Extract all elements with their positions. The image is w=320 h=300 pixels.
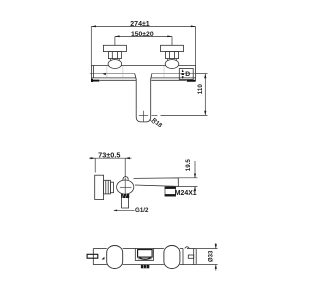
- left leg dome: [108, 60, 122, 69]
- left leg hex nut: [108, 52, 121, 59]
- dimension Ø33: [197, 243, 218, 271]
- svg-text:G1/2: G1/2: [135, 207, 149, 214]
- right end cap box: [179, 69, 193, 80]
- svg-text:73±0.5: 73±0.5: [98, 151, 120, 160]
- hex nut: [104, 180, 111, 194]
- dimension 19.5 arrows (outside): [194, 174, 196, 191]
- svg-text:D: D: [185, 71, 190, 78]
- svg-text:110: 110: [197, 84, 204, 95]
- body seam line: [90, 73, 196, 75]
- flow mark: [103, 73, 106, 75]
- svg-text:19.5: 19.5: [185, 159, 192, 172]
- bottom feet thick lines: [91, 80, 195, 82]
- dimension 274±1 arrows: [91, 25, 195, 27]
- dimension 19.5: [178, 161, 197, 192]
- dimension 110 arrows: [204, 74, 206, 116]
- left leg flange: [103, 45, 126, 51]
- valve crosshair: [120, 178, 132, 197]
- body tube: [92, 66, 196, 81]
- valve body circle: [117, 180, 134, 194]
- spout tube: [136, 79, 151, 122]
- spout arm: [134, 178, 179, 187]
- spout collar tapers: [135, 74, 152, 80]
- dimension 73±0.5 arrows (outside): [91, 157, 130, 159]
- shower outlet tube: [122, 198, 129, 208]
- dimension 274±1 line: [91, 27, 195, 66]
- aerator thread bands: [165, 187, 176, 189]
- spout center crosshair: [139, 111, 158, 122]
- svg-text:M24X1: M24X1: [175, 190, 197, 197]
- spout aerator dark arc: [140, 257, 151, 259]
- G1/2 leader: [114, 209, 135, 211]
- wall flange: [95, 175, 104, 199]
- connector ring: [110, 182, 113, 193]
- body bar: [93, 249, 196, 265]
- right leg dome: [165, 60, 179, 69]
- valve top cap: [123, 177, 128, 180]
- left knob: [107, 246, 123, 269]
- left end cap nub: [91, 79, 93, 82]
- shower outlet thread band: [121, 194, 129, 198]
- dimension 110 line: [161, 74, 208, 116]
- dimension Ø33 arrows (outside): [215, 244, 217, 268]
- aerator block: [165, 187, 176, 196]
- svg-text:Ø33: Ø33: [209, 250, 215, 262]
- right end cap small dimension arrows: [182, 69, 184, 79]
- dimension 150±20 line: [115, 37, 172, 46]
- dimension 150±20 arrows: [115, 35, 172, 37]
- dimension 73±0.5 line: [89, 158, 132, 177]
- body lower plate line: [100, 79, 187, 81]
- right knob: [164, 246, 180, 269]
- left inlet tab: [87, 254, 98, 258]
- shower outlet from below: [141, 265, 149, 268]
- right leg hex nut: [166, 52, 179, 59]
- R18 leader: [150, 119, 154, 123]
- flow mark bottom: [102, 257, 105, 260]
- svg-text:150±20: 150±20: [131, 31, 154, 38]
- leg hidden shaft lines: [107, 66, 164, 78]
- spout inner rect: [138, 250, 153, 258]
- svg-text:274±1: 274±1: [130, 21, 150, 28]
- right leg flange: [161, 45, 184, 51]
- right end step: [183, 247, 196, 265]
- spout seen from below: outer block: [135, 249, 153, 261]
